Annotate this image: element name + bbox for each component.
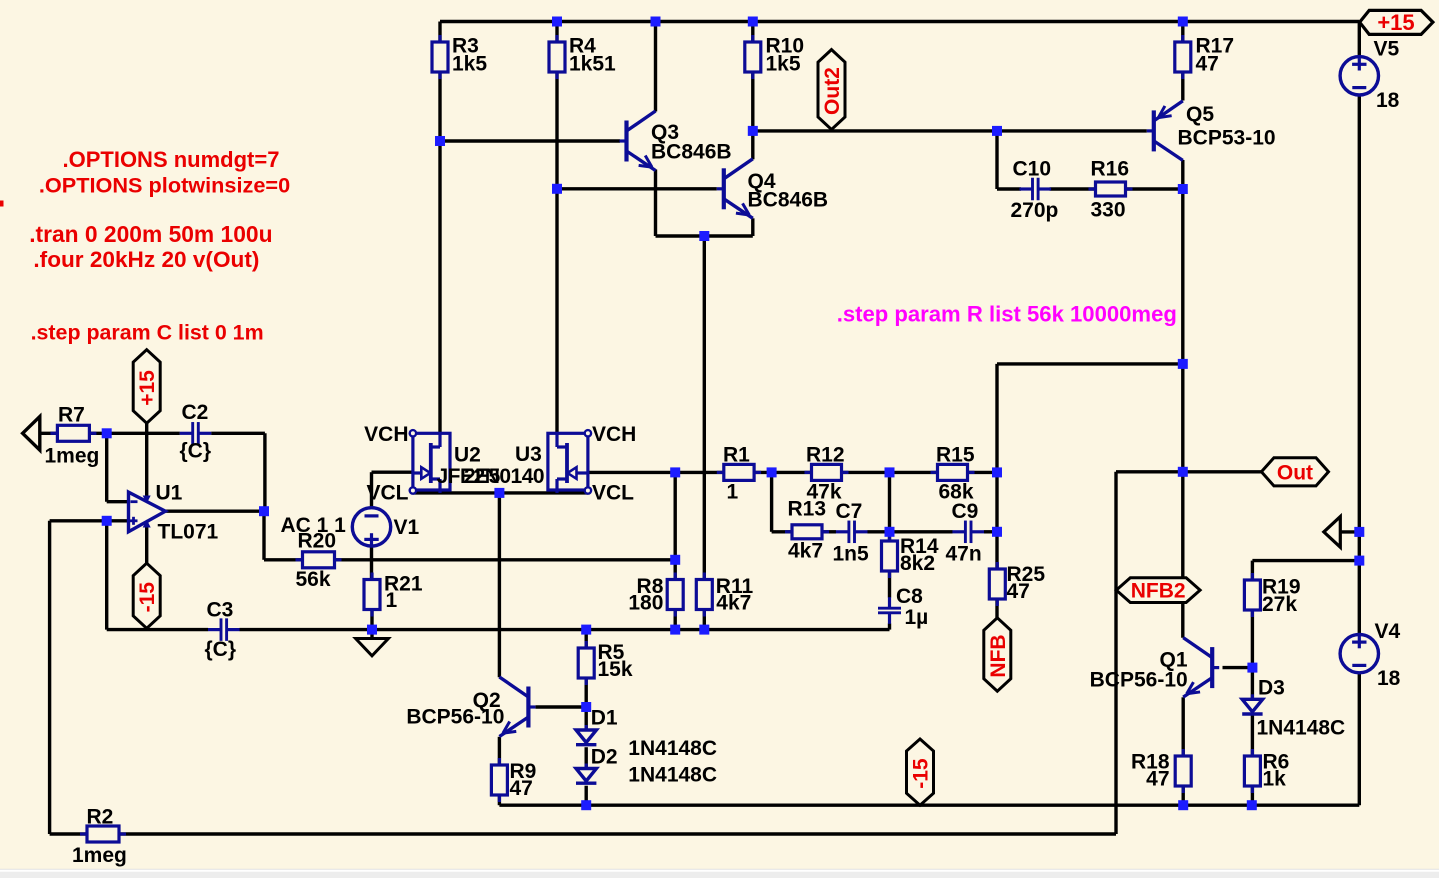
- svg-text:1µ: 1µ: [905, 606, 929, 629]
- svg-text:VCL: VCL: [367, 482, 409, 505]
- svg-text:R13: R13: [788, 498, 827, 521]
- svg-text:47: 47: [1196, 53, 1219, 76]
- svg-text:1n5: 1n5: [833, 543, 870, 566]
- svg-text:R15: R15: [936, 444, 975, 467]
- svg-text:VCH: VCH: [364, 423, 408, 446]
- svg-text:.step param R list 56k 10000me: .step param R list 56k 10000meg: [837, 302, 1177, 327]
- svg-text:NFB: NFB: [987, 634, 1010, 677]
- svg-text:C10: C10: [1013, 158, 1052, 181]
- svg-text:27k: 27k: [1262, 593, 1297, 616]
- svg-text:.step param C list 0 1m: .step param C list 0 1m: [31, 321, 264, 345]
- svg-text:47: 47: [510, 777, 533, 800]
- svg-text:Q5: Q5: [1186, 103, 1214, 126]
- svg-text:R7: R7: [58, 404, 85, 427]
- svg-text:.OPTIONS plotwinsize=0: .OPTIONS plotwinsize=0: [39, 173, 290, 198]
- svg-text:V5: V5: [1374, 38, 1400, 61]
- svg-text:4k7: 4k7: [788, 540, 823, 563]
- svg-text:U1: U1: [156, 482, 183, 505]
- svg-text:15k: 15k: [598, 658, 633, 681]
- svg-text:1k5: 1k5: [452, 53, 487, 76]
- svg-text:BC846B: BC846B: [651, 141, 732, 164]
- svg-text:.tran 0 200m 50m 100u: .tran 0 200m 50m 100u: [29, 221, 272, 247]
- svg-text:+15: +15: [136, 370, 159, 406]
- svg-text:C7: C7: [836, 500, 863, 523]
- svg-text:U3: U3: [515, 443, 542, 466]
- svg-text:180: 180: [628, 592, 663, 615]
- svg-text:1: 1: [386, 589, 398, 612]
- svg-text:C2: C2: [182, 401, 209, 424]
- svg-text:1k: 1k: [1263, 768, 1287, 791]
- svg-text:BC846B: BC846B: [748, 189, 829, 212]
- svg-text:-15: -15: [910, 758, 933, 789]
- svg-text:1k51: 1k51: [569, 53, 616, 76]
- svg-text:R1: R1: [723, 444, 750, 467]
- svg-text:4k7: 4k7: [716, 592, 751, 615]
- svg-text:R16: R16: [1091, 158, 1130, 181]
- svg-text:47: 47: [1146, 768, 1169, 791]
- svg-text:1: 1: [727, 481, 739, 504]
- svg-text:47n: 47n: [946, 543, 982, 566]
- svg-text:330: 330: [1091, 199, 1126, 222]
- svg-text:.four 20kHz 20 v(Out): .four 20kHz 20 v(Out): [33, 247, 259, 272]
- svg-text:{C}: {C}: [180, 440, 212, 463]
- svg-text:D3: D3: [1258, 677, 1285, 700]
- svg-text:1N4148C: 1N4148C: [1257, 717, 1346, 740]
- svg-text:Out: Out: [1277, 461, 1313, 484]
- svg-text:1N4148C: 1N4148C: [628, 764, 717, 787]
- svg-text:C3: C3: [207, 599, 234, 622]
- svg-text:-15: -15: [136, 582, 159, 613]
- svg-text:18: 18: [1376, 89, 1400, 112]
- svg-text:C9: C9: [952, 500, 979, 523]
- svg-text:47: 47: [1007, 580, 1030, 603]
- svg-text:VCH: VCH: [592, 423, 636, 446]
- svg-text:VCL: VCL: [592, 482, 634, 505]
- svg-text:BCP56-10: BCP56-10: [406, 706, 504, 729]
- svg-text:1meg: 1meg: [45, 445, 100, 468]
- svg-text:R20: R20: [298, 530, 337, 553]
- svg-text:1N4148C: 1N4148C: [628, 737, 717, 760]
- svg-text:1k5: 1k5: [766, 53, 801, 76]
- svg-text:R12: R12: [806, 444, 845, 467]
- svg-text:{C}: {C}: [205, 638, 237, 661]
- svg-text:R2: R2: [87, 806, 114, 829]
- svg-text:D1: D1: [591, 707, 618, 730]
- svg-text:2E5: 2E5: [464, 465, 501, 488]
- svg-text:.OPTIONS numdgt=7: .OPTIONS numdgt=7: [63, 147, 280, 172]
- svg-text:D2: D2: [591, 746, 618, 769]
- svg-text:270p: 270p: [1011, 199, 1059, 222]
- svg-text:BCP53-10: BCP53-10: [1178, 127, 1276, 150]
- svg-text:Out2: Out2: [821, 67, 844, 115]
- svg-text:U2: U2: [454, 444, 481, 467]
- svg-text:1meg: 1meg: [72, 844, 127, 867]
- svg-text:NFB2: NFB2: [1131, 580, 1186, 603]
- svg-text:+15: +15: [1377, 10, 1414, 35]
- svg-text:V1: V1: [394, 516, 420, 539]
- svg-text:TL071: TL071: [158, 521, 219, 544]
- svg-text:8k2: 8k2: [900, 552, 935, 575]
- svg-text:V4: V4: [1375, 620, 1401, 643]
- svg-text:BCP56-10: BCP56-10: [1090, 669, 1188, 692]
- svg-text:C8: C8: [896, 585, 923, 608]
- svg-text:56k: 56k: [296, 568, 331, 591]
- svg-text:18: 18: [1377, 667, 1401, 690]
